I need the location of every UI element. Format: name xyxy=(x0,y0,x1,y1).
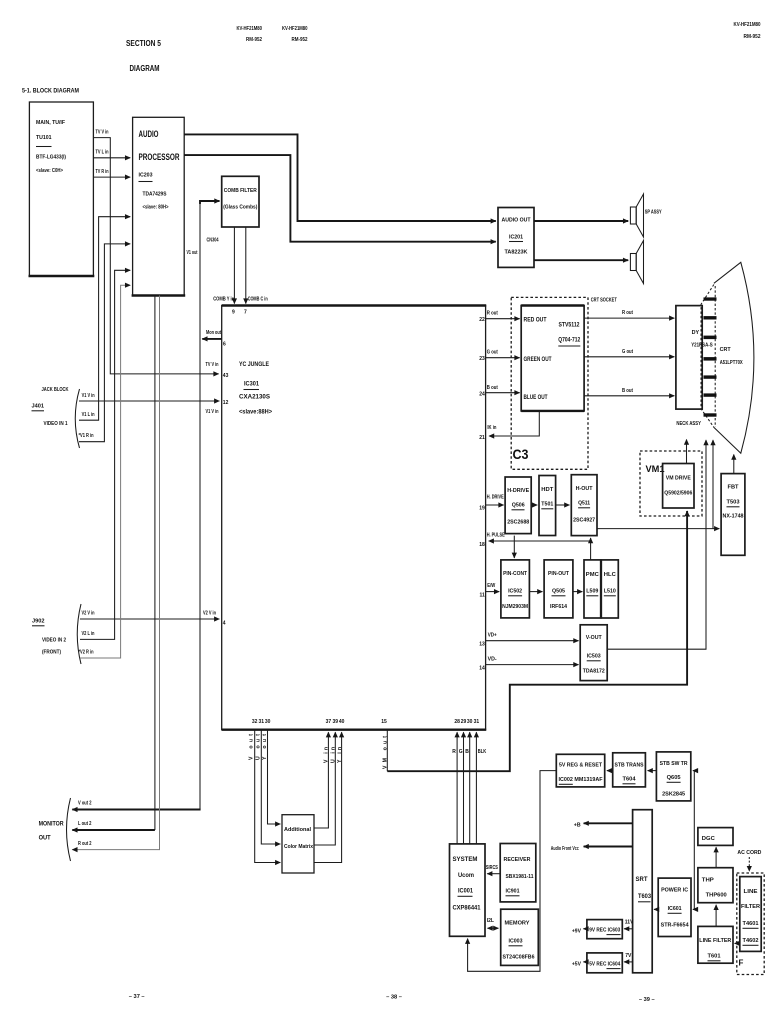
svg-text:R out 2: R out 2 xyxy=(78,841,92,847)
wire AC cord entry arrow xyxy=(748,857,750,871)
wire system B to jungle pin 30 xyxy=(465,719,472,844)
svg-text:DY: DY xyxy=(692,330,700,336)
svg-text:STB TRANS: STB TRANS xyxy=(615,763,644,769)
svg-text:POWER IC: POWER IC xyxy=(661,888,688,894)
svg-text:BLUE OUT: BLUE OUT xyxy=(524,394,548,401)
wire V1 L in up to audio processor xyxy=(79,217,130,421)
wire R out RGB block to neck xyxy=(584,310,674,318)
wire H drive jungle pin 19 xyxy=(479,495,504,512)
line filter T601 xyxy=(698,926,733,963)
neck assy block DY Y21RSA-S xyxy=(676,306,713,427)
svg-text:RM-952: RM-952 xyxy=(292,37,308,43)
svg-text:L out 2: L out 2 xyxy=(78,821,92,827)
svg-text:J902: J902 xyxy=(32,619,45,625)
svg-text:ST24C08FB6: ST24C08FB6 xyxy=(503,955,535,961)
page number 38 xyxy=(386,995,402,1001)
svg-text:V-OUT: V-OUT xyxy=(586,635,602,641)
wire jungle pin 31 U out to color matrix xyxy=(255,719,280,844)
svg-text:5-1. BLOCK DIAGRAM: 5-1. BLOCK DIAGRAM xyxy=(22,88,79,95)
svg-text:SIRCS: SIRCS xyxy=(486,865,499,871)
svg-text:DIAGRAM: DIAGRAM xyxy=(130,63,160,73)
DGC block xyxy=(698,828,733,846)
svg-text:MEMORY: MEMORY xyxy=(505,921,530,927)
wire FBT line branch to CRT neck xyxy=(712,440,714,529)
svg-text:VIDEO IN 1: VIDEO IN 1 xyxy=(44,421,68,427)
subsection title 5-1 block diagram xyxy=(22,88,79,95)
svg-text:11V: 11V xyxy=(625,919,634,925)
wire V1 R in up to audio processor xyxy=(79,244,131,442)
svg-text:IC002 MM1319AF: IC002 MM1319AF xyxy=(559,777,603,783)
svg-text:R: R xyxy=(452,749,456,755)
svg-text:MAIN, TU/IF: MAIN, TU/IF xyxy=(36,120,65,126)
svg-text:*V2 R in: *V2 R in xyxy=(79,650,94,656)
svg-text:T604: T604 xyxy=(623,777,637,783)
svg-text:T4601: T4601 xyxy=(743,921,759,927)
VM1 dashed box xyxy=(640,451,702,516)
svg-text:A51LPT70X: A51LPT70X xyxy=(720,360,743,366)
wire THP to DGC xyxy=(715,847,717,868)
wire mon out jungle pin 6 xyxy=(202,330,226,348)
VM drive block Q5902/5906 xyxy=(663,464,694,509)
V-out block IC503 TDA8172 xyxy=(580,625,607,681)
svg-text:THP600: THP600 xyxy=(706,893,727,899)
svg-text:12: 12 xyxy=(223,400,229,406)
svg-text:HLC: HLC xyxy=(604,572,616,578)
svg-text:V1 out: V1 out xyxy=(187,250,198,256)
svg-text:– 37 –: – 37 – xyxy=(129,994,145,1000)
wire I2L memory bus to system xyxy=(487,918,499,928)
svg-text:AUDIO: AUDIO xyxy=(139,129,159,139)
svg-text:<slave: 80H>: <slave: 80H> xyxy=(143,205,169,211)
svg-text:PIN-OUT: PIN-OUT xyxy=(548,571,569,577)
svg-text:SECTION 5: SECTION 5 xyxy=(126,38,161,48)
CRT neck electrode bar 4 xyxy=(704,357,717,361)
svg-text:6: 6 xyxy=(223,342,226,348)
svg-text:T4602: T4602 xyxy=(743,938,759,944)
svg-text:23: 23 xyxy=(479,356,485,362)
svg-text:COMB FILTER: COMB FILTER xyxy=(224,188,257,194)
wire color matrix to jungle pin 37 V in xyxy=(314,719,331,828)
CRT neck electrode bar 1 xyxy=(704,297,717,300)
svg-text:Additional: Additional xyxy=(284,827,312,833)
svg-text:5V REG & RESET: 5V REG & RESET xyxy=(559,763,602,769)
svg-text:C3: C3 xyxy=(513,447,529,462)
wire HDT to H-out xyxy=(556,504,570,506)
comb filter block xyxy=(222,176,259,227)
wire audio out to speaker 2 xyxy=(534,259,628,261)
svg-text:4: 4 xyxy=(223,621,226,627)
svg-text:NJM2903M: NJM2903M xyxy=(502,604,528,610)
svg-text:AC CORD: AC CORD xyxy=(737,850,761,856)
svg-text:Ucom: Ucom xyxy=(458,872,474,879)
wire +B from SRT xyxy=(574,822,633,828)
wire G out jungle pin 23 xyxy=(479,350,519,363)
PMC coil L509 xyxy=(584,560,601,618)
svg-text:STV5112: STV5112 xyxy=(559,322,580,329)
svg-text:V1 L in: V1 L in xyxy=(82,412,95,418)
svg-text:TV V in: TV V in xyxy=(96,130,109,136)
9V rectifier IC603 xyxy=(587,920,622,939)
wire PMC up to H-out xyxy=(590,538,592,560)
wire comb Y in to jungle pin 9 xyxy=(213,227,235,316)
STB switching transistor Q605 2SK2845 xyxy=(656,752,690,801)
svg-text:OUT: OUT xyxy=(39,835,51,842)
svg-text:V1 V in: V1 V in xyxy=(82,393,95,399)
svg-text:NECK ASSY: NECK ASSY xyxy=(676,421,701,427)
wire VM drive to CRT neck xyxy=(686,440,688,464)
svg-text:– 39 –: – 39 – xyxy=(639,997,655,1003)
svg-text:YC JUNGLE: YC JUNGLE xyxy=(239,361,270,368)
svg-text:TV L in: TV L in xyxy=(96,150,109,156)
svg-text:L509: L509 xyxy=(586,589,598,595)
wire FBT to CRT xyxy=(733,455,735,474)
svg-text:31: 31 xyxy=(474,719,480,725)
svg-text:R out: R out xyxy=(487,311,498,317)
svg-text:FILTER: FILTER xyxy=(741,904,760,910)
svg-text:RED OUT: RED OUT xyxy=(524,317,547,324)
svg-text:HDT: HDT xyxy=(541,487,554,493)
wire V2 L in up to audio processor xyxy=(80,270,130,639)
svg-text:B: B xyxy=(465,749,469,755)
wire jungle pin 30 Y out to color matrix xyxy=(262,719,281,824)
svg-text:COMB C in: COMB C in xyxy=(248,297,268,303)
CRT socket dashed box xyxy=(511,297,617,469)
svg-text:NX-1748: NX-1748 xyxy=(723,514,744,520)
system microcontroller IC001 CXP86441 xyxy=(450,844,486,936)
line filter T4601 T4602 block xyxy=(740,877,761,952)
svg-text:39: 39 xyxy=(333,719,339,725)
svg-text:V2 V in: V2 V in xyxy=(82,611,95,617)
wire color matrix to jungle pin 39 U in xyxy=(314,719,338,845)
HLC coil L510 xyxy=(601,560,618,618)
wire B out jungle pin 24 xyxy=(479,385,519,398)
svg-text:TDA8172: TDA8172 xyxy=(583,669,605,675)
svg-text:<slave: C0H>: <slave: C0H> xyxy=(36,168,64,174)
svg-text:T603: T603 xyxy=(638,893,651,900)
svg-text:Q506: Q506 xyxy=(512,503,525,509)
svg-text:2SC2688: 2SC2688 xyxy=(507,520,529,526)
svg-text:G out: G out xyxy=(622,349,633,355)
speaker SP2 xyxy=(630,241,643,284)
jack block J902 video in 2 labels xyxy=(32,604,81,664)
svg-text:Color Matrix: Color Matrix xyxy=(284,844,313,850)
THP thermistor THP600 xyxy=(698,868,733,903)
svg-text:VM DRIVE: VM DRIVE xyxy=(666,476,692,482)
svg-text:SYSTEM: SYSTEM xyxy=(453,856,478,863)
wire comb C in to jungle pin 7 xyxy=(244,227,268,316)
svg-text:CRT: CRT xyxy=(720,347,732,353)
wire R out jungle pin 22 to RGB block xyxy=(479,311,519,324)
power IC601 STR-F6654 xyxy=(658,878,691,936)
svg-text:T503: T503 xyxy=(727,500,740,506)
RGB out block STV5112 Q704-712 xyxy=(521,306,584,411)
svg-text:<slave:88H>: <slave:88H> xyxy=(239,409,272,416)
5V rectifier IC604 xyxy=(587,953,622,973)
svg-text:IRF614: IRF614 xyxy=(550,604,568,610)
svg-text:+B: +B xyxy=(574,822,581,828)
svg-text:DGC: DGC xyxy=(702,836,715,842)
svg-text:V out: V out xyxy=(249,734,255,760)
svg-text:7: 7 xyxy=(244,310,247,316)
svg-text:IC001: IC001 xyxy=(458,888,473,895)
wire SRT 11V to 9V rec xyxy=(624,919,634,929)
svg-text:G: G xyxy=(459,749,463,755)
svg-text:CRT SOCKET: CRT SOCKET xyxy=(591,298,618,304)
svg-text:PIN-CONT: PIN-CONT xyxy=(503,571,527,577)
page number 37 xyxy=(129,994,145,1000)
svg-text:CN304: CN304 xyxy=(207,238,219,244)
wire audio processor out 2 to audio out xyxy=(184,155,496,242)
svg-text:RM-952: RM-952 xyxy=(744,34,761,40)
wire SRT 7V to 5V rec xyxy=(624,953,633,962)
CRT neck electrode bar 3 xyxy=(704,336,717,340)
svg-text:Q605: Q605 xyxy=(667,775,681,781)
svg-text:29: 29 xyxy=(461,719,467,725)
svg-text:VIDEO IN 2: VIDEO IN 2 xyxy=(42,638,66,644)
svg-text:11: 11 xyxy=(480,593,486,599)
wire SIRCS receiver to system xyxy=(486,865,500,874)
wire V1 out riser to comb filter CN304 xyxy=(187,201,220,810)
svg-text:VM1: VM1 xyxy=(646,464,665,474)
svg-text:13: 13 xyxy=(479,642,485,648)
svg-text:Q505: Q505 xyxy=(552,589,565,595)
svg-text:LINE: LINE xyxy=(744,889,758,895)
svg-text:IC203: IC203 xyxy=(139,173,153,179)
wire system BLK to jungle pin 31 xyxy=(474,719,487,844)
svg-text:Mon out: Mon out xyxy=(206,330,221,336)
svg-text:STR-F6654: STR-F6654 xyxy=(661,923,690,929)
wire H pulse to jungle pin 18 xyxy=(479,533,590,549)
page number 39 xyxy=(639,997,655,1003)
svg-text:21: 21 xyxy=(479,435,485,441)
svg-text:AUDIO OUT: AUDIO OUT xyxy=(502,218,531,224)
svg-text:SP ASSY: SP ASSY xyxy=(645,210,662,216)
svg-text:RECEIVER: RECEIVER xyxy=(504,857,531,863)
svg-text:IC003: IC003 xyxy=(509,939,523,945)
wire V1 V in to jungle pin 12 xyxy=(79,393,229,415)
wire 5V rec out +5V xyxy=(572,961,587,967)
svg-text:VD-: VD- xyxy=(488,657,497,663)
memory block IC003 xyxy=(501,909,539,965)
svg-text:V out 2: V out 2 xyxy=(78,801,92,807)
audio out block IC201 xyxy=(498,208,534,268)
svg-text:T501: T501 xyxy=(541,502,553,508)
svg-text:14: 14 xyxy=(479,666,485,672)
svg-text:32: 32 xyxy=(252,719,258,725)
wire TV L in xyxy=(93,150,130,158)
svg-text:T601: T601 xyxy=(708,954,721,960)
YC jungle IC301 block xyxy=(222,306,487,730)
svg-text:43: 43 xyxy=(223,373,229,379)
svg-text:I2L: I2L xyxy=(487,918,494,924)
title model no. header left xyxy=(237,26,263,43)
jack block J401 video in 1 labels xyxy=(32,387,80,448)
svg-text:Y out: Y out xyxy=(262,734,268,760)
CRT neck electrode bar 2 xyxy=(704,316,717,319)
CRT neck electrode bar 6 xyxy=(704,393,717,396)
wire system G to jungle pin 29 xyxy=(459,719,467,844)
svg-text:TV V in: TV V in xyxy=(206,362,219,368)
svg-text:9: 9 xyxy=(232,310,235,316)
svg-text:+5V: +5V xyxy=(572,961,582,967)
svg-text:30: 30 xyxy=(265,719,271,725)
svg-text:V2 V in: V2 V in xyxy=(203,611,216,617)
wire H-out to FBT xyxy=(597,528,719,530)
svg-text:J401: J401 xyxy=(32,404,45,410)
svg-text:COMB Y in: COMB Y in xyxy=(213,297,234,303)
svg-text:U out: U out xyxy=(255,734,261,760)
node C3 xyxy=(513,447,529,462)
wire VD+ jungle pin 13 to V-out xyxy=(479,633,578,648)
svg-text:SRT: SRT xyxy=(636,876,648,883)
svg-text:RM-952: RM-952 xyxy=(246,37,262,43)
svg-text:IK in: IK in xyxy=(487,425,496,431)
svg-text:TDA7429S: TDA7429S xyxy=(143,192,167,198)
svg-text:28: 28 xyxy=(454,719,460,725)
svg-text:H. DRIVE: H. DRIVE xyxy=(487,495,505,501)
svg-text:31: 31 xyxy=(259,719,265,725)
wire system R to jungle pin 28 xyxy=(452,719,460,844)
svg-text:JACK BLOCK: JACK BLOCK xyxy=(42,387,70,393)
wire 9V rec out +9V xyxy=(572,928,587,934)
svg-text:E/W: E/W xyxy=(487,583,495,589)
svg-text:FBT: FBT xyxy=(728,485,740,491)
tuner block TU101 MAIN TU/IF xyxy=(29,102,95,276)
STB transformer T604 xyxy=(613,753,646,787)
svg-text:TU101: TU101 xyxy=(36,135,52,141)
svg-text:(FRONT): (FRONT) xyxy=(42,650,61,656)
svg-text:Q511: Q511 xyxy=(578,501,590,507)
FBT block T503 NX-1748 xyxy=(721,474,745,556)
title model no. header right xyxy=(734,22,761,40)
svg-text:IC503: IC503 xyxy=(587,654,601,660)
svg-text:SBX1981-11: SBX1981-11 xyxy=(506,874,534,880)
svg-text:2SC4927: 2SC4927 xyxy=(573,518,595,524)
svg-text:PMC: PMC xyxy=(586,572,599,578)
svg-text:IC201: IC201 xyxy=(509,235,523,241)
svg-text:Q5902/5906: Q5902/5906 xyxy=(664,491,692,497)
section title xyxy=(126,38,161,73)
wire TV R in xyxy=(93,169,130,177)
svg-text:IC601: IC601 xyxy=(668,906,682,912)
wire pin-out to PMC xyxy=(573,591,582,593)
SRT transformer T603 xyxy=(633,810,653,973)
svg-text:*V1 R in: *V1 R in xyxy=(79,433,94,439)
svg-text:V2 L in: V2 L in xyxy=(82,631,95,637)
svg-text:THP: THP xyxy=(702,878,714,884)
svg-text:15: 15 xyxy=(381,719,387,725)
AC cord dashed enclosure xyxy=(737,850,764,975)
wire monitor V out 2 xyxy=(72,801,200,810)
svg-text:H. PULSE: H. PULSE xyxy=(487,533,506,539)
wire audio front vcc from SRT xyxy=(551,846,633,852)
title model no. header mid xyxy=(282,26,308,43)
svg-text:22: 22 xyxy=(479,317,485,323)
svg-text:IC301: IC301 xyxy=(244,381,259,388)
wire V-out to CRT neck xyxy=(607,440,706,649)
svg-text:(Glass Combs): (Glass Combs) xyxy=(223,205,257,211)
svg-text:PROCESSOR: PROCESSOR xyxy=(139,152,180,162)
svg-text:CXA2130S: CXA2130S xyxy=(239,394,271,401)
wire V2 V in to jungle pin 4 xyxy=(80,611,226,627)
wire 5V reg loop to system reset xyxy=(468,771,557,972)
HDT block T501 xyxy=(539,476,556,536)
svg-text:L510: L510 xyxy=(604,589,616,595)
svg-text:19: 19 xyxy=(479,506,485,512)
wire monitor R out 2 from audio processor xyxy=(72,296,159,850)
wire TV V in tuner to jungle pin 43 xyxy=(93,130,228,380)
svg-text:18: 18 xyxy=(479,542,485,548)
svg-text:VD+: VD+ xyxy=(488,633,497,639)
svg-text:7V: 7V xyxy=(625,953,632,959)
wire IK in feedback to jungle pin 21 xyxy=(479,411,539,441)
wire G out RGB block to neck xyxy=(584,349,674,357)
svg-text:V1 V in: V1 V in xyxy=(206,409,219,415)
svg-text:IC502: IC502 xyxy=(508,589,522,595)
pin-out block Q505 xyxy=(544,560,573,618)
svg-text:R out: R out xyxy=(622,310,633,316)
svg-text:GREEN OUT: GREEN OUT xyxy=(524,356,552,363)
svg-text:2SK2845: 2SK2845 xyxy=(662,792,685,798)
CRT tube outline A51LPT70X xyxy=(701,262,754,453)
svg-text:Y21RSA-S: Y21RSA-S xyxy=(691,343,713,349)
wire jungle pin 32 V out to color matrix xyxy=(249,719,281,863)
pin-cont block IC502 xyxy=(501,560,530,618)
svg-text:BLK: BLK xyxy=(478,749,487,755)
wire B out RGB block to neck xyxy=(584,388,674,396)
svg-text:Audio Front Vcc: Audio Front Vcc xyxy=(551,846,579,852)
svg-text:MONITOR: MONITOR xyxy=(39,821,64,828)
wire monitor L out 2 from audio processor xyxy=(72,296,155,831)
wire E/W jungle pin 11 to pin-cont xyxy=(480,583,500,599)
monitor out labels xyxy=(39,798,71,861)
wire STB SW TR to STB trans xyxy=(648,770,657,772)
wire H-drive to HDT xyxy=(531,504,537,506)
wire power IC to SRT xyxy=(654,908,658,910)
svg-text:G out: G out xyxy=(487,350,498,356)
svg-text:BTF-LG433(I): BTF-LG433(I) xyxy=(36,155,66,161)
wire pin-cont to pin-out xyxy=(529,591,542,593)
additional color matrix block xyxy=(282,815,314,873)
svg-text:– 38 –: – 38 – xyxy=(386,995,402,1001)
svg-text:30: 30 xyxy=(467,719,473,725)
CRT neck electrode bar 7 xyxy=(704,413,717,416)
H-out block Q511 xyxy=(571,475,597,536)
audio processor IC203 xyxy=(132,117,186,295)
svg-text:5V REC IC604: 5V REC IC604 xyxy=(589,962,620,968)
svg-text:CXP86441: CXP86441 xyxy=(453,905,481,912)
wire audio out to speaker 1 xyxy=(534,220,628,222)
wire VM out jungle pin 15 to VM drive xyxy=(381,511,687,771)
CRT neck electrode bar 5 xyxy=(704,375,717,378)
wire audio processor out 1 to audio out xyxy=(184,134,496,221)
svg-text:40: 40 xyxy=(339,719,345,725)
speaker SP1 xyxy=(630,194,662,237)
svg-text:H-DRIVE: H-DRIVE xyxy=(507,488,529,494)
IR receiver block IC901 xyxy=(500,844,536,902)
fuse F label xyxy=(739,959,744,968)
H-drive block Q506 xyxy=(505,477,531,534)
wire color matrix to jungle pin 40 Y in xyxy=(314,719,345,863)
svg-text:24: 24 xyxy=(479,392,485,398)
svg-text:F: F xyxy=(739,959,744,968)
svg-text:B out: B out xyxy=(487,385,498,391)
wire H-drive down to pin-cont xyxy=(513,536,515,558)
wire STB trans to 5V reg xyxy=(607,770,613,772)
svg-text:KV-HF21M80: KV-HF21M80 xyxy=(237,26,263,32)
svg-text:STB SW TR: STB SW TR xyxy=(660,761,688,767)
wire VD- jungle pin 14 to V-out xyxy=(479,657,578,672)
